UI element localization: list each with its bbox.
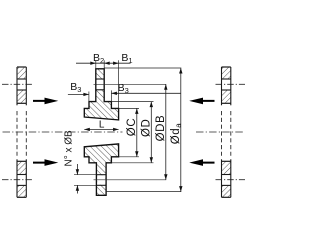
dimension line diameter C bbox=[135, 108, 138, 156]
mounting arrow left top bbox=[33, 98, 58, 105]
right ring section outline bbox=[222, 67, 231, 197]
dimension line bolt hole diameter bbox=[76, 164, 79, 194]
svg-text:ØDB: ØDB bbox=[155, 115, 167, 142]
left ring section hatch bbox=[17, 67, 26, 197]
svg-text:ØD: ØD bbox=[141, 119, 153, 137]
svg-text:ØC: ØC bbox=[126, 118, 138, 136]
extension lines bolt hole diameter bbox=[74, 175, 96, 186]
upper plate bolt hole edges bbox=[96, 79, 104, 90]
extension line da bottom bbox=[106, 191, 181, 193]
dimension line L bbox=[84, 128, 118, 131]
hub lower half section hatch bbox=[84, 144, 118, 195]
dimension line B3 right bbox=[111, 90, 180, 101]
dimension line diameter DB bbox=[164, 84, 167, 180]
extension line DB bottom (bolt centerline across plate) bbox=[94, 179, 167, 181]
svg-text:L: L bbox=[99, 119, 105, 130]
centerline main axis bbox=[3, 131, 246, 133]
svg-text:N° x ØB: N° x ØB bbox=[64, 130, 75, 167]
bolt circle centerline top bbox=[2, 83, 245, 85]
mounting arrow right bottom bbox=[189, 159, 214, 166]
lower plate bolt hole edges bbox=[96, 175, 106, 186]
left ring hidden bore dashed lines bbox=[17, 111, 26, 156]
dimension line diameter D bbox=[150, 102, 153, 163]
bolt circle centerline bottom bbox=[2, 179, 245, 181]
extension line D top bbox=[111, 101, 153, 103]
extension line D bottom bbox=[111, 162, 153, 164]
extension line C top bbox=[119, 107, 139, 109]
lower bolt hole white band bbox=[97, 175, 105, 184]
hub upper half section hatch bbox=[84, 69, 118, 120]
hub lower profile outline bbox=[84, 144, 118, 195]
right ring hidden bore dashed lines bbox=[222, 111, 231, 156]
dimension line diameter da bbox=[179, 68, 182, 192]
right ring section hatch bbox=[222, 67, 231, 197]
extension line da top bbox=[104, 67, 181, 69]
mounting arrow right top bbox=[189, 98, 214, 105]
hub upper profile outline bbox=[84, 69, 118, 120]
dimension line B3 left bbox=[68, 92, 89, 102]
upper bolt hole white band bbox=[97, 80, 104, 90]
extension line DB top (bolt centerline across plate) bbox=[94, 83, 167, 85]
extension line C bottom bbox=[119, 156, 139, 158]
mounting arrow left bottom bbox=[33, 159, 58, 166]
dimension line B2 B1 bbox=[76, 60, 131, 108]
left ring section outline bbox=[17, 67, 26, 197]
